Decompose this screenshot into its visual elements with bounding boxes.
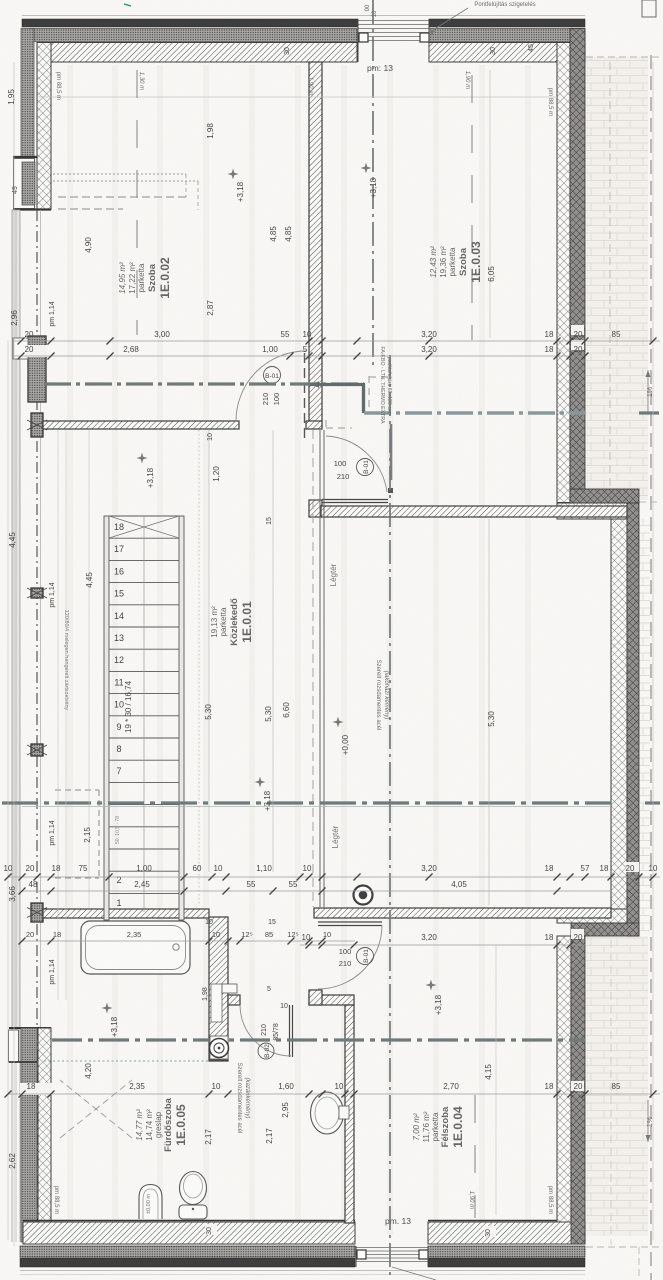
stair opening dashed outline xyxy=(55,789,99,791)
level marker room03 xyxy=(361,163,372,174)
scan streak lines xyxy=(70,65,528,1235)
interior wall stub right of door B-01 upper xyxy=(306,421,322,429)
dim row y941 bathroom xyxy=(22,940,355,942)
section axis vertical B xyxy=(389,355,391,1280)
railing double line xyxy=(319,430,321,907)
top wall masonry left xyxy=(38,43,357,63)
neighbour top dashed edge xyxy=(586,56,660,58)
top wall insulation right xyxy=(429,29,585,42)
dim row y891 xyxy=(22,890,611,892)
door B-01 upper leaf xyxy=(304,353,306,440)
stair numbers xyxy=(114,522,124,908)
window pm13 top frame right xyxy=(420,33,429,42)
washbasin xyxy=(311,1092,344,1134)
door B-01 lower leaf xyxy=(322,499,388,501)
top wall insulation left xyxy=(30,29,357,42)
right wall dark band lower xyxy=(571,936,585,1244)
door B-02 leaf xyxy=(289,1005,291,1057)
curtain wall outer frame xyxy=(12,210,20,1062)
room label 1E.0.02 Szoba xyxy=(118,257,172,299)
left wall masonry upper (crosshatch) xyxy=(37,43,51,210)
attic hatch dashed opening outline xyxy=(368,376,370,408)
wc toilet bowl xyxy=(180,1172,207,1205)
neighbour mid dashed edge xyxy=(639,501,660,503)
dim row y1094 xyxy=(8,1093,660,1095)
felszoba guide x496 xyxy=(495,945,497,1215)
neighbour dashed vertical lower xyxy=(638,1247,640,1280)
bathtub drain xyxy=(173,944,179,950)
neighbour inner dashed line xyxy=(609,62,611,500)
section line horizontal lower xyxy=(52,1038,585,1041)
top wall masonry right xyxy=(429,43,585,63)
corridor guide x273 xyxy=(272,430,274,872)
right wall bottom jog crosshatch xyxy=(557,909,627,923)
roof 1,90m dashed line room04 xyxy=(474,1095,476,1218)
door B-01 lower stop block xyxy=(388,488,393,493)
section line horizontal upper left part xyxy=(44,382,364,385)
interior wall y908 (4,05 wall) xyxy=(314,908,611,918)
window pm13 bottom jambs xyxy=(355,1246,357,1267)
left wall bathroom recess box xyxy=(9,1030,19,1062)
room label 1E.0.05 Furdoszoba xyxy=(135,1097,188,1152)
left wall bathroom top line xyxy=(9,1027,51,1029)
left wall recess box xyxy=(14,159,35,209)
top wall plaster line xyxy=(22,15,585,17)
stair left rail xyxy=(104,516,109,920)
interior wall bathroom top xyxy=(43,909,209,918)
stair walking line xyxy=(143,516,145,912)
steel post 4 xyxy=(31,903,43,922)
dim row y922 small xyxy=(205,919,276,926)
bottom wall insulation left xyxy=(20,1246,355,1257)
attic hatch thick step line with arrow xyxy=(310,385,364,412)
interior wall stub below door B-01 lower xyxy=(309,500,322,517)
bottom wall insulation right xyxy=(428,1246,585,1257)
left wall recess bottom line xyxy=(13,208,51,210)
room label 1E.0.03 Szoba xyxy=(429,241,483,283)
teal mark top left xyxy=(124,4,131,6)
left wall bathroom recess bottom xyxy=(9,1061,37,1063)
corridor guide x209 xyxy=(208,430,210,872)
curtain wall inner face line xyxy=(40,210,42,1224)
leader line from note to window xyxy=(430,8,468,32)
bathtub outer xyxy=(81,921,190,974)
dim line x8 xyxy=(7,340,9,1240)
corridor thin guide lines xyxy=(57,430,59,1000)
wall horizontal x309-354 xyxy=(309,995,354,1005)
dim row y341 xyxy=(14,340,660,342)
partition niche xyxy=(211,984,222,1022)
window pm13 top: glazing lines xyxy=(358,20,429,22)
section line upper right beyond wall xyxy=(639,411,660,414)
door B-02 swing arc xyxy=(240,1005,291,1056)
bottom wall plaster line xyxy=(20,1270,585,1272)
attic ladder grey edge xyxy=(390,424,393,480)
level marker corridor xyxy=(255,777,266,788)
halo for 20 labels on right wall xyxy=(571,325,584,335)
legter guide x489 xyxy=(488,519,490,905)
bottom wall dark core right xyxy=(428,1258,585,1267)
right wall jog crosshatch xyxy=(557,503,627,519)
section line horizontal upper right part xyxy=(364,411,585,414)
top wall dark core right xyxy=(429,19,585,27)
chimney symbol xyxy=(354,886,373,905)
corridor guide x199 xyxy=(198,430,200,905)
halo dim row across pier y351 xyxy=(26,345,47,357)
interior wall room02/corridor horizontal xyxy=(43,421,239,429)
roof 1,30m dashed line room02 xyxy=(136,70,138,335)
level marker bathroom xyxy=(102,1003,113,1014)
bottom second plaster line xyxy=(20,1274,585,1276)
level marker corridor upper xyxy=(137,453,148,464)
right wall crosshatch mid xyxy=(611,519,627,923)
level marker room02 xyxy=(228,169,239,180)
window pm13 top frame left xyxy=(359,33,368,42)
bathtub inner xyxy=(86,926,186,970)
wardrobe dashed outline xyxy=(53,173,186,175)
right wall crosshatch lower xyxy=(557,936,571,1222)
left wall bathroom insulation xyxy=(21,1028,37,1242)
room label 1E.0.01 Kozlekedo xyxy=(210,598,254,646)
door B-02 label circle xyxy=(258,1043,274,1059)
door B-01 upper swing arc xyxy=(236,351,306,421)
window pm13 bottom glazing xyxy=(356,1247,428,1249)
left wall recess insulation xyxy=(22,162,35,205)
right wall jog dark xyxy=(570,489,639,503)
door B-01 lower swing arc xyxy=(326,436,387,492)
bottom wall masonry left xyxy=(23,1222,355,1244)
left wall window recess top line xyxy=(13,156,37,158)
steel post 3 xyxy=(31,744,43,756)
wc tank xyxy=(179,1205,207,1219)
right wall dark band upper xyxy=(570,29,585,490)
teal survey line middle xyxy=(22,806,611,808)
right wall dark band mid xyxy=(627,503,639,936)
dim line x14 xyxy=(13,62,15,1246)
neighbour inner dashed line lower xyxy=(610,940,612,1245)
interior wall between rooms 02 and 03 xyxy=(309,62,322,427)
top wall dark core left xyxy=(22,19,358,27)
bottom wall inner edge left xyxy=(23,1220,355,1222)
wc dot xyxy=(192,1208,194,1210)
shower dashed marks xyxy=(60,1080,132,1138)
section axis vertical A xyxy=(372,0,374,365)
door B-01 third label circle xyxy=(357,948,374,965)
section line step xyxy=(362,384,365,413)
bottom wall inner edge right xyxy=(428,1220,557,1222)
level marker legter xyxy=(333,717,344,728)
wall between bath hall and felszoba xyxy=(345,1005,354,1223)
neighbour building zone mid right strip xyxy=(639,519,650,936)
dim row y877 xyxy=(8,876,660,878)
neighbour wall stub top right corner xyxy=(642,0,656,17)
stair treads xyxy=(109,515,179,517)
wall stub above xyxy=(309,990,322,1005)
stair top landing X xyxy=(109,516,179,538)
partition niche top jamb xyxy=(222,984,237,993)
neighbour building zone upper right xyxy=(586,57,648,500)
wall stub B-02 hinge side xyxy=(228,995,240,1005)
washing machine niche xyxy=(210,1036,228,1059)
window pm13 top jambs xyxy=(357,19,359,62)
steel post 1 xyxy=(31,413,43,437)
interior wall legter top xyxy=(321,506,627,517)
window pm13 bottom frames xyxy=(357,1250,366,1259)
bidet xyxy=(139,1185,162,1220)
curtain wall pier (solid) xyxy=(28,336,46,402)
door B-01 lower label circle xyxy=(357,459,374,476)
neighbour bottom dashed edge xyxy=(586,1246,660,1248)
door B-01 third swing arc xyxy=(318,925,382,989)
washing machine circle xyxy=(210,1039,229,1058)
dim row y945 right xyxy=(300,944,585,946)
level marker felszoba xyxy=(426,980,437,991)
bottom wall dark core left xyxy=(20,1258,355,1267)
washbasin tap xyxy=(339,1106,349,1119)
teal dotted level line bathroom xyxy=(44,1060,209,1062)
leader line bottom xyxy=(392,1267,436,1280)
door B-01 upper label circle xyxy=(264,367,281,384)
interior wall bathroom partition vertical xyxy=(209,917,228,1061)
roof 1,90m dashed line room03 xyxy=(471,75,473,340)
room label 1E.0.04 Felszoba xyxy=(412,1106,465,1148)
door B-01 third leaf xyxy=(318,921,382,923)
pier outer box xyxy=(13,338,28,359)
lintel line y97 xyxy=(38,96,557,98)
section line middle beyond wall xyxy=(645,801,660,804)
neighbour building zone lower right xyxy=(586,936,648,1236)
dim row y356 xyxy=(14,355,585,357)
section line horizontal middle xyxy=(2,801,611,804)
left wall insulation upper xyxy=(21,29,34,174)
bottom wall masonry right xyxy=(428,1222,585,1244)
neighbour boundary dashed line right xyxy=(650,55,652,1280)
post cross braces xyxy=(27,420,47,430)
right wall bottom jog dark xyxy=(571,923,639,936)
railing dashed edge xyxy=(312,430,314,907)
room03 guide x523 xyxy=(489,70,491,338)
right dim line x653 xyxy=(652,62,654,1240)
halo dim row across left wall y1094 xyxy=(20,1083,52,1095)
stair right rail xyxy=(179,516,184,920)
steel post 2 xyxy=(31,588,43,598)
left wall bathroom masonry xyxy=(38,1028,51,1242)
partition cap xyxy=(209,1055,228,1061)
curtain wall mullion dashed line xyxy=(36,210,38,1224)
right wall crosshatch upper xyxy=(557,43,570,503)
